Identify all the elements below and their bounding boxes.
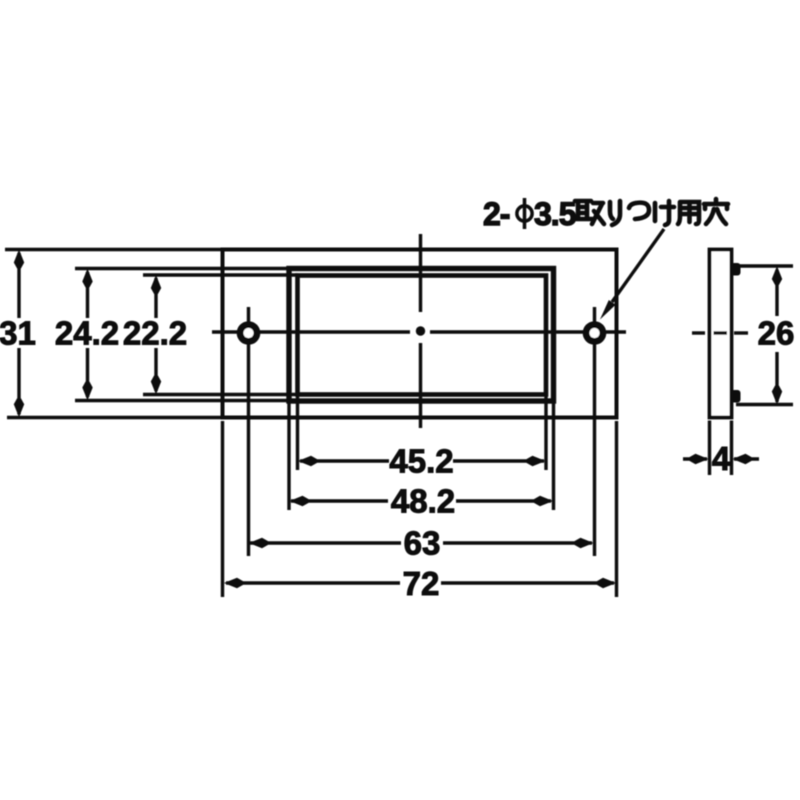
svg-text:63: 63 [404,525,441,562]
svg-text:4: 4 [712,440,731,477]
svg-text:48.2: 48.2 [391,483,455,520]
svg-text:45.2: 45.2 [389,443,453,480]
svg-text:3.5: 3.5 [534,196,576,232]
svg-text:24.2: 24.2 [55,315,119,352]
svg-text:72: 72 [403,565,440,602]
svg-text:26: 26 [758,315,795,352]
svg-text:31: 31 [0,315,36,352]
svg-text:2-: 2- [483,196,510,232]
svg-text:22.2: 22.2 [123,315,187,352]
